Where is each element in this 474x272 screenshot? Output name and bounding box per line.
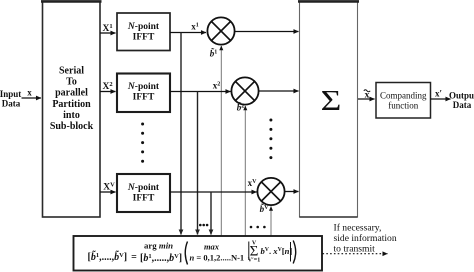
label Output Data	[449, 90, 474, 110]
multiplier M2	[231, 77, 258, 104]
svg-text:x1: x1	[191, 22, 199, 32]
svg-text:function: function	[388, 101, 418, 111]
svg-text:XV: XV	[103, 181, 115, 192]
block companding function	[376, 83, 431, 119]
svg-text:IFFT: IFFT	[133, 92, 155, 102]
wire sum to companding, node xtilde	[358, 90, 375, 101]
svg-text:Companding: Companding	[380, 91, 427, 101]
svg-text:xV: xV	[248, 178, 258, 188]
wire M2 to sum	[258, 90, 298, 92]
block IFFT U2	[117, 74, 170, 113]
svg-text:X2: X2	[102, 81, 112, 92]
svg-text:If necessary,: If necessary,	[334, 222, 382, 233]
wire tap x1 down to optimizer	[180, 33, 182, 235]
wire input x into S/P block	[22, 88, 42, 99]
svg-text:N-point: N-point	[127, 22, 160, 32]
formula: big close paren	[293, 241, 296, 264]
block IFFT U1	[117, 13, 170, 51]
multiplier M3	[257, 178, 284, 205]
wire b2 up into M2	[244, 106, 246, 236]
svg-text:IFFT: IFFT	[133, 193, 155, 203]
wire X1: S/P to IFFT1	[100, 32, 116, 34]
svg-text:arg min: arg min	[144, 240, 173, 250]
wire tap x2 down to optimizer	[197, 92, 199, 235]
wire tap xV down to optimizer	[210, 192, 212, 235]
svg-text:b̃2: b̃2	[237, 103, 245, 113]
wire x2: IFFT2 to multiplier M2	[170, 91, 231, 93]
svg-text:Data: Data	[2, 99, 21, 109]
svg-text:n = 0,1,2.....N-1: n = 0,1,2.....N-1	[190, 252, 245, 262]
dots between IFFT2 and IFFT3	[141, 123, 144, 163]
dots between tap lines above optimizer	[199, 224, 208, 227]
svg-text:into: into	[63, 110, 80, 121]
multiplier M1	[207, 17, 234, 44]
svg-text:side information: side information	[334, 233, 397, 244]
svg-text:To: To	[66, 76, 77, 87]
svg-text:N-point: N-point	[127, 183, 160, 193]
label Input Data	[0, 89, 21, 109]
svg-text:Input: Input	[0, 89, 21, 99]
block sum	[298, 1, 359, 217]
dots between M2 and M3	[269, 119, 272, 160]
block IFFT U3	[117, 174, 170, 212]
wire x1: IFFT1 to multiplier M1	[170, 32, 206, 34]
formula: abs sum term	[248, 240, 293, 263]
wire bV up into M3	[270, 207, 272, 237]
svg-text:V: V	[252, 240, 257, 246]
svg-text:[b1,.....,bV]: [b1,.....,bV]	[140, 253, 182, 264]
dots between b lines above optimizer	[250, 226, 266, 229]
svg-text:Serial: Serial	[59, 66, 84, 77]
formula: arg min over [b1,...,bV]	[140, 240, 182, 263]
svg-text:IFFT: IFFT	[133, 32, 155, 42]
wire M3 to sum	[284, 191, 298, 193]
svg-text:x2: x2	[213, 81, 221, 91]
svg-text:Partition: Partition	[52, 99, 91, 110]
wire b1 up into M1	[220, 46, 222, 236]
svg-text:N-point: N-point	[127, 82, 160, 92]
svg-text:[b̃1,....,b̃V] =: [b̃1,....,b̃V] =	[88, 250, 138, 263]
wire XV: S/P to IFFT3	[100, 191, 116, 193]
wire X2: S/P to IFFT2	[100, 91, 116, 93]
svg-text:x′: x′	[435, 89, 442, 99]
svg-text:Output: Output	[449, 90, 474, 100]
svg-text:Data: Data	[453, 100, 472, 110]
svg-text:Sub-block: Sub-block	[50, 121, 94, 132]
block optimizer (argmin formula box)	[74, 236, 323, 271]
svg-text:b̃V: b̃V	[260, 204, 270, 214]
block S/P: serial-to-parallel partition box	[41, 1, 102, 217]
svg-text:parallel: parallel	[55, 88, 88, 99]
svg-text:to transmit: to transmit	[334, 243, 376, 254]
label side information note	[334, 222, 397, 254]
svg-text:bV. xV[n]: bV. xV[n]	[261, 246, 293, 256]
svg-text:V′=1: V′=1	[248, 258, 260, 264]
wire xV: IFFT3 to multiplier M3	[170, 191, 257, 193]
wire dashed side info arrow	[323, 253, 388, 255]
svg-text:Σ: Σ	[321, 85, 342, 116]
svg-text:b̃1: b̃1	[210, 49, 218, 59]
formula: max over n=0,1,2...N-1	[190, 241, 245, 262]
svg-text:max: max	[204, 241, 220, 251]
wire M1 to sum	[234, 31, 298, 33]
formula: big open paren	[185, 242, 187, 265]
wire companding to output, node x'	[431, 89, 451, 100]
svg-text:x: x	[27, 88, 32, 98]
